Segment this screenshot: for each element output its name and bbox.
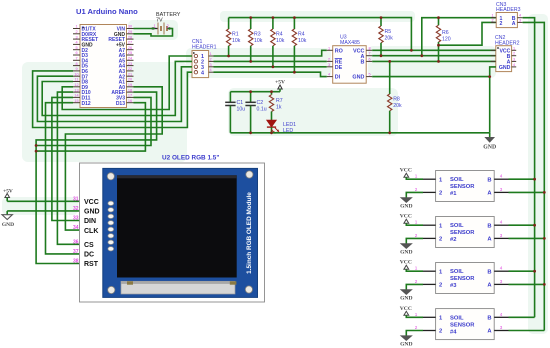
svg-text:GND: GND [400,296,412,302]
svg-text:DC: DC [84,252,94,259]
wire GND to OLED GND [7,210,79,212]
svg-text:R6: R6 [442,30,449,36]
svg-text:#2: #2 [450,237,456,243]
svg-text:28: 28 [128,35,132,39]
svg-text:U2 OLED RGB 1.5": U2 OLED RGB 1.5" [162,155,219,162]
ground symbol OLED [2,211,14,228]
svg-text:31: 31 [73,196,79,202]
svg-text:2: 2 [439,237,442,243]
svg-text:24: 24 [128,57,132,61]
svg-text:HEADER1: HEADER1 [192,45,217,51]
U1 left pin names [82,27,99,107]
svg-text:U1 Arduino Nano: U1 Arduino Nano [76,7,138,16]
svg-text:SOIL: SOIL [450,223,464,229]
svg-text:3: 3 [500,233,503,238]
U1 right pin names [108,27,125,107]
svg-text:DIN: DIN [84,218,96,225]
svg-text:A: A [512,21,516,27]
display U2 OLED module [73,155,265,303]
svg-text:RST: RST [84,261,99,268]
svg-text:2: 2 [415,233,418,238]
resistor R4b 10k [292,18,307,73]
svg-text:D13: D13 [116,101,125,107]
svg-text:+5V: +5V [3,189,13,195]
svg-text:2: 2 [210,57,212,61]
U1 left pin stubs [73,29,80,103]
svg-text:CLK: CLK [84,228,98,235]
svg-text:4: 4 [500,220,503,225]
svg-text:1: 1 [492,14,494,18]
svg-text:SOIL: SOIL [450,315,464,321]
svg-text:3: 3 [500,187,503,192]
svg-text:7: 7 [75,57,77,61]
svg-text:C2: C2 [257,100,264,106]
connector CN3 HEADER3 [491,2,523,27]
svg-text:2: 2 [492,18,494,22]
svg-text:B: B [487,177,491,183]
svg-text:12: 12 [74,83,78,87]
svg-text:2: 2 [513,52,515,56]
wire D13 branch [36,103,145,151]
svg-text:27: 27 [128,41,132,45]
svg-text:23: 23 [128,62,132,66]
svg-text:3: 3 [500,279,503,284]
wire R6 branch to CN3 pin2 [439,22,496,45]
svg-text:SOIL: SOIL [450,269,464,275]
svg-text:26: 26 [128,46,132,50]
svg-text:25: 25 [128,51,132,55]
svg-text:9: 9 [75,67,77,71]
svg-text:R4: R4 [276,32,283,38]
svg-text:4: 4 [201,70,204,76]
svg-text:#4: #4 [450,329,457,335]
svg-text:11: 11 [75,78,79,82]
wire D9 to CN1 pin1 [62,56,192,110]
wire +5V rail c1c2 [230,91,280,93]
svg-text:7: 7 [368,52,370,56]
svg-text:1: 1 [513,46,515,50]
svg-text:5: 5 [75,46,77,50]
resistor R1 10k [226,18,240,56]
svg-text:SENSOR: SENSOR [450,230,475,236]
wire 3V3 branch [36,97,151,145]
svg-text:DE: DE [335,65,343,71]
svg-text:GND: GND [400,342,412,348]
svg-text:3: 3 [210,63,212,67]
svg-text:17: 17 [128,94,132,98]
wire D8 to CN1 pin2 [42,61,192,115]
soil sensor 2 [400,214,545,256]
svg-text:8: 8 [75,62,77,66]
wire VCC row [372,49,496,51]
wire CN1.1 to U3 RO [214,50,327,56]
svg-text:GND: GND [483,145,496,151]
svg-text:1: 1 [415,266,418,271]
svg-text:C1: C1 [237,100,244,106]
capacitor C1 10u [225,92,245,133]
LED1 LED [267,120,296,134]
svg-text:SENSOR: SENSOR [450,322,475,328]
wire B row [372,60,496,62]
svg-text:29: 29 [128,30,132,34]
resistor R3 10k [249,18,263,62]
wire CN3 B to bus [523,18,535,318]
svg-text:2: 2 [439,191,442,197]
svg-text:32: 32 [73,206,79,212]
svg-text:38: 38 [73,259,79,265]
svg-text:1: 1 [75,25,77,29]
svg-text:VCC: VCC [400,306,412,312]
svg-text:VCC: VCC [400,214,412,220]
svg-text:B: B [487,316,491,322]
svg-text:10k: 10k [276,38,285,44]
svg-text:1: 1 [415,220,418,225]
U1 pin numbers left [74,25,78,103]
svg-text:1: 1 [415,312,418,317]
wire D6 to CN1 pin4 [33,71,192,128]
svg-text:10k: 10k [298,38,307,44]
svg-text:GND: GND [400,250,412,256]
svg-text:34: 34 [73,225,79,231]
U1 pin numbers right [128,25,132,103]
svg-text:3: 3 [75,35,77,39]
svg-text:4: 4 [500,174,503,179]
svg-text:B: B [487,269,491,275]
svg-text:7V: 7V [156,18,163,24]
svg-text:2: 2 [75,30,77,34]
wire A0 to OLED CLK [65,87,162,230]
soil sensor 3 [400,260,545,302]
svg-text:R1: R1 [232,32,239,38]
soil sensor 1 [400,168,545,210]
svg-text:22: 22 [128,67,132,71]
svg-text:20k: 20k [393,103,402,109]
wire CN1.2 to U3 RE [214,60,327,62]
svg-text:VCC: VCC [84,199,99,206]
connector CN2 HEADER2 [491,35,520,71]
svg-text:2: 2 [415,279,418,284]
svg-text:R7: R7 [276,98,283,104]
svg-text:4: 4 [519,14,521,18]
svg-text:R3: R3 [254,32,261,38]
svg-text:0.1u: 0.1u [257,106,267,112]
IC U1 Arduino Nano [76,7,138,108]
capacitor C2 0.1u [245,92,266,133]
U1 right pin stubs [127,29,134,103]
soil sensor 4 [400,306,545,348]
svg-text:2: 2 [439,283,442,289]
svg-text:#1: #1 [450,191,457,197]
wire CN1.3 to U3 DE [214,66,327,68]
svg-text:13: 13 [74,88,78,92]
svg-text:19: 19 [128,83,132,87]
svg-text:2: 2 [415,325,418,330]
svg-text:16: 16 [128,99,132,103]
battery BT1 7V [151,12,181,35]
svg-text:4: 4 [500,312,503,317]
svg-text:6: 6 [368,57,370,61]
svg-text:D12: D12 [82,101,91,107]
svg-text:10u: 10u [237,106,246,112]
connector CN1 HEADER1 [192,39,217,78]
svg-text:GND: GND [352,75,364,81]
resistor R7 1k [269,92,282,121]
svg-text:14: 14 [74,94,78,98]
resistor R4 10k [271,18,285,67]
wire D11 to OLED DIN [52,97,80,220]
wire D12 to OLED DC [46,103,80,254]
svg-text:4: 4 [513,63,515,67]
svg-text:10: 10 [74,72,78,76]
power +5V rail top [229,18,412,51]
svg-text:4: 4 [328,73,330,77]
svg-text:R4: R4 [298,32,305,38]
svg-text:1k: 1k [276,105,282,111]
svg-text:GND: GND [2,222,14,228]
svg-text:4: 4 [500,266,503,271]
svg-text:8: 8 [368,46,370,50]
svg-text:R8: R8 [393,97,400,103]
svg-text:SENSOR: SENSOR [450,184,475,190]
svg-text:CS: CS [84,242,94,249]
svg-text:3: 3 [519,18,521,22]
svg-text:2: 2 [328,57,330,61]
svg-text:2: 2 [415,187,418,192]
svg-text:GND: GND [84,209,100,216]
wire GND rail [230,132,489,134]
svg-text:1: 1 [328,46,330,50]
resistor R6 120 [436,18,450,62]
IC U3 MAX485 [327,35,373,84]
svg-text:15: 15 [74,99,78,103]
wire AREF to OLED RST [36,92,157,263]
power +5V symbol OLED [3,189,13,202]
svg-text:10k: 10k [254,38,263,44]
svg-text:2: 2 [500,21,503,27]
svg-text:R5: R5 [385,29,392,35]
svg-text:3: 3 [328,63,330,67]
svg-text:SOIL: SOIL [450,177,464,183]
wire CN2 GND down [490,67,496,133]
svg-text:120: 120 [442,37,451,43]
svg-text:36: 36 [73,239,79,245]
wire D10 to OLED CS [57,92,79,244]
svg-text:VCC: VCC [400,168,412,174]
svg-text:20k: 20k [385,36,394,42]
svg-text:B: B [360,60,364,66]
svg-text:30: 30 [128,25,132,29]
svg-text:1: 1 [210,52,212,56]
wire U3 GND row [372,76,490,78]
wire battery VIN [134,28,156,30]
svg-text:18: 18 [128,88,132,92]
svg-text:3: 3 [500,325,503,330]
svg-text:GND: GND [400,204,412,210]
wire CN3 A to bus [523,22,545,330]
power +5V symbol mid [275,80,285,92]
svg-text:#3: #3 [450,283,457,289]
ground symbol right [483,133,496,151]
svg-text:5: 5 [368,73,370,77]
svg-text:37: 37 [73,249,79,255]
resistor R8 20k [388,61,402,132]
svg-text:21: 21 [128,72,132,76]
svg-text:4: 4 [75,41,77,45]
wire +5V to OLED VCC [7,200,79,202]
svg-text:6: 6 [75,51,77,55]
svg-text:3: 3 [513,57,515,61]
wire A row [372,55,496,57]
wire D7 to CN1 pin3 [37,67,192,122]
svg-text:2: 2 [439,329,442,335]
svg-text:20: 20 [128,78,132,82]
svg-text:B: B [487,223,491,229]
svg-text:SENSOR: SENSOR [450,276,475,282]
wire A net top run [422,18,496,56]
resistor R5 20k [379,18,393,56]
svg-text:1.5inch RGB OLED Module: 1.5inch RGB OLED Module [246,192,253,274]
svg-text:VCC: VCC [400,260,412,266]
svg-text:DI: DI [335,75,341,81]
svg-text:RO: RO [335,48,343,54]
svg-text:33: 33 [73,216,79,222]
wire CN1.4 to U3 DI [214,72,327,76]
svg-text:10k: 10k [232,38,241,44]
wire battery GND [134,29,173,37]
svg-text:4: 4 [210,68,212,72]
svg-text:1: 1 [415,174,418,179]
svg-text:GND: GND [499,65,511,71]
